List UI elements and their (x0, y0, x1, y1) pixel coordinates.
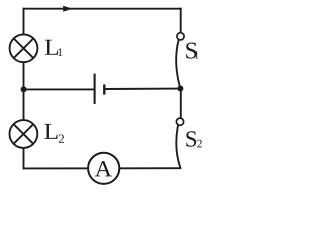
switch S1 (176, 33, 184, 89)
current arrow (63, 6, 72, 12)
wire right middle (junction to S2) (180, 89, 182, 118)
label S1 (186, 43, 196, 59)
lamp L2 (10, 120, 38, 148)
node junction right (177, 86, 183, 92)
node junction left (21, 86, 27, 92)
label S2 (186, 131, 196, 146)
switch S2 (176, 118, 183, 168)
wire top (24, 8, 181, 10)
wire left (23, 9, 25, 169)
label L2 (44, 124, 57, 139)
wire bottom (24, 167, 181, 169)
wire right upper (180, 9, 182, 33)
wire middle right (105, 88, 180, 90)
label L1 (45, 40, 58, 55)
lamp L1 (10, 34, 38, 62)
ammeter A (88, 153, 119, 184)
battery long plate (94, 74, 96, 104)
wire middle left (24, 88, 94, 90)
battery short plate (103, 84, 105, 94)
